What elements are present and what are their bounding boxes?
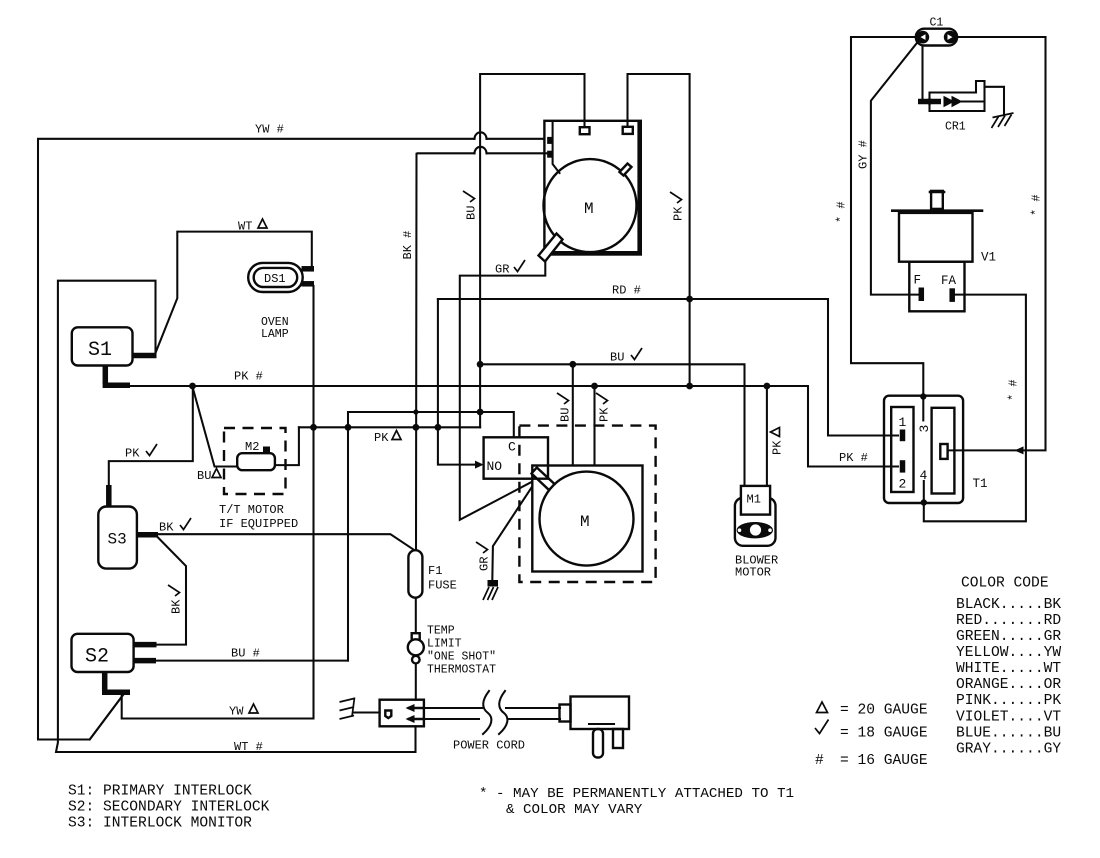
svg-text:LIMIT: LIMIT bbox=[427, 638, 462, 651]
svg-text:BK #: BK # bbox=[401, 231, 415, 260]
label GY # (rotated) bbox=[857, 140, 871, 169]
svg-text:RD #: RD # bbox=[612, 284, 641, 298]
label BU (check) rotated at oven motor drop bbox=[557, 393, 573, 422]
svg-text:GR: GR bbox=[478, 557, 492, 571]
cord break squiggles bbox=[483, 691, 491, 734]
svg-text:2: 2 bbox=[899, 477, 907, 492]
wire RD#: from riser corner right to T1 pin1 bbox=[438, 299, 898, 436]
svg-text:F1: F1 bbox=[428, 564, 442, 578]
junction wire2 at BK vertical bbox=[413, 424, 420, 431]
label BK (check) rotated, S3-S2 link bbox=[168, 585, 184, 614]
wire PK top: fan motor right terminal up and over, down to PK bus bbox=[628, 74, 690, 386]
svg-text:V1: V1 bbox=[981, 251, 996, 265]
svg-text:#: # bbox=[815, 753, 824, 769]
wire M2 output riser to wire2 bbox=[275, 427, 299, 465]
junction wire2 at RD riser bbox=[435, 424, 442, 431]
fan motor small shaft top-right bbox=[620, 164, 632, 176]
arrowhead into NO terminal bbox=[475, 461, 484, 469]
svg-text:PK: PK bbox=[771, 440, 785, 455]
wire BU triangle: diagonal from PK junction into M2 bbox=[193, 388, 238, 467]
label * # left (rotated) bbox=[835, 201, 849, 223]
svg-text:THERMOSTAT: THERMOSTAT bbox=[427, 664, 496, 677]
wire BK check: S3 right to fuse bbox=[157, 534, 415, 550]
svg-text:MOTOR: MOTOR bbox=[735, 566, 771, 580]
top-right border left side down to T1 pin3 bbox=[851, 37, 923, 420]
svg-text:POWER CORD: POWER CORD bbox=[453, 739, 525, 753]
wire RD riser down to NO terminal bbox=[438, 299, 479, 465]
svg-text:1: 1 bbox=[899, 415, 907, 430]
svg-text:YELLOW....YW: YELLOW....YW bbox=[956, 645, 1061, 661]
terminal block T1 bbox=[884, 393, 963, 505]
legend: gauge key bbox=[817, 702, 928, 719]
wire BU# from S2 to riser bbox=[156, 660, 348, 662]
fan motor circle bbox=[544, 159, 637, 252]
svg-text:BLACK.....BK: BLACK.....BK bbox=[956, 597, 1061, 613]
wire WT triangle: S1 loop up to oven lamp bbox=[156, 232, 312, 353]
wire S2 bottom to outer border diagonal bbox=[90, 695, 123, 740]
svg-text:F: F bbox=[914, 274, 922, 288]
junction BU wire at oven motor drop bbox=[569, 361, 576, 368]
svg-text:M: M bbox=[584, 200, 594, 218]
wire BK check: S3 down to S2 upper terminal bbox=[156, 537, 186, 645]
temp limit thermostat bbox=[408, 633, 424, 663]
svg-text:GRAY......GY: GRAY......GY bbox=[956, 742, 1061, 758]
svg-text:"ONE SHOT": "ONE SHOT" bbox=[427, 651, 496, 664]
wire riser DS1-bottom through wire2 down to YW triangle wire bbox=[122, 286, 314, 719]
svg-text:COLOR CODE: COLOR CODE bbox=[961, 576, 1049, 592]
magnetron V1 bbox=[892, 191, 982, 311]
svg-text:GY #: GY # bbox=[857, 140, 871, 169]
svg-text:WHITE.....WT: WHITE.....WT bbox=[956, 661, 1061, 677]
wire BK#: corner to fan motor box, down to fuse bbox=[487, 152, 548, 154]
svg-text:PK: PK bbox=[598, 407, 612, 422]
svg-text:PK #: PK # bbox=[839, 451, 868, 465]
svg-text:RED.......RD: RED.......RD bbox=[956, 613, 1061, 629]
svg-text:BK: BK bbox=[159, 521, 174, 535]
svg-text:BU: BU bbox=[465, 206, 479, 220]
wire hop: YW over BU vertical bbox=[475, 132, 487, 139]
wire YW# top: left border corner to fan motor box bbox=[487, 138, 545, 140]
wire GR check: oven motor case ground diagonal and fork stem bbox=[492, 486, 532, 581]
top-right border top edge segments around C1 bbox=[851, 36, 915, 38]
svg-text:WT: WT bbox=[238, 220, 252, 234]
wire2: M2 output net bbox=[299, 426, 480, 428]
wire hop: BK over BU vertical bbox=[475, 147, 487, 153]
motor M2 resistor body bbox=[237, 440, 275, 470]
svg-text:PK #: PK # bbox=[234, 370, 263, 384]
svg-text:* #: * # bbox=[1030, 194, 1044, 216]
svg-text:S2: SECONDARY INTERLOCK: S2: SECONDARY INTERLOCK bbox=[68, 800, 270, 816]
wire BU mid horizontal to blower M1 bbox=[480, 364, 744, 486]
switch S2 secondary interlock bbox=[72, 634, 157, 693]
wire PK check: S3 top riser to PK bus junction bbox=[109, 386, 193, 489]
arrowhead on T1 square wire bbox=[1015, 446, 1024, 454]
wire BU drop to oven motor bbox=[572, 364, 574, 466]
capacitor C1 bbox=[916, 29, 957, 46]
svg-text:T1: T1 bbox=[973, 477, 988, 491]
svg-text:* #: * # bbox=[835, 201, 849, 223]
fuse F1 bbox=[408, 550, 456, 598]
switch S3 interlock monitor bbox=[98, 485, 158, 569]
svg-text:M: M bbox=[580, 513, 590, 531]
svg-text:TEMP: TEMP bbox=[427, 625, 455, 638]
oven lamp DS1 bbox=[248, 263, 314, 292]
power cord ground fork bbox=[340, 698, 380, 720]
label PK (check) rotated at oven motor drop bbox=[596, 393, 612, 422]
junction wire1 at BU vertical bbox=[477, 409, 484, 416]
svg-text:PK: PK bbox=[672, 206, 686, 221]
wire FA to right loop down to T1 bbox=[955, 295, 1026, 451]
svg-text:BK: BK bbox=[170, 599, 184, 614]
svg-text:= 16 GAUGE: = 16 GAUGE bbox=[840, 753, 928, 769]
diode CR1 bbox=[918, 81, 1004, 114]
oven cavity dashed box bbox=[519, 426, 655, 582]
wire M1 right lead bbox=[766, 386, 768, 487]
svg-text:FUSE: FUSE bbox=[428, 579, 457, 593]
svg-text:FA: FA bbox=[941, 274, 957, 288]
T/T motor M2 dashed box bbox=[224, 428, 286, 494]
svg-text:M1: M1 bbox=[747, 493, 761, 507]
wire GY#: C1 to V1 F terminal bbox=[871, 42, 918, 295]
svg-text:S1: S1 bbox=[88, 339, 112, 362]
junction wire2 at DS1 riser bbox=[310, 424, 317, 431]
switch S1 primary interlock bbox=[72, 327, 157, 385]
junction on PK bus at blower M1 branch bbox=[764, 383, 771, 390]
svg-text:IF EQUIPPED: IF EQUIPPED bbox=[219, 517, 298, 531]
svg-text:YW: YW bbox=[229, 705, 244, 719]
svg-text:S1: PRIMARY INTERLOCK: S1: PRIMARY INTERLOCK bbox=[68, 784, 252, 800]
label PK (check) rotated bbox=[670, 192, 686, 221]
wire connector wire1-wire2 and riser down to BU# from S2 bbox=[347, 412, 349, 661]
label * # right (rotated) bbox=[1030, 194, 1044, 216]
wire PK bus from S1 across bbox=[129, 386, 898, 467]
junction on PK bus at fan motor riser bbox=[686, 383, 693, 390]
label * # near T1 (rotated) bbox=[1007, 379, 1021, 401]
label PK (triangle) rotated near M1 leads bbox=[771, 428, 785, 456]
wire1: lamp/switch net to C terminal of switch bbox=[348, 412, 514, 437]
blower motor M1 bbox=[735, 486, 776, 546]
fan motor box (top M) bbox=[539, 121, 641, 262]
svg-text:S3: S3 bbox=[108, 531, 127, 549]
interlock switch NO/C box bbox=[484, 437, 548, 478]
wire inner-left loop: S1 right terminal up, across, down left side to WT# bbox=[56, 281, 416, 752]
svg-text:PK: PK bbox=[374, 431, 389, 445]
svg-text:BU: BU bbox=[197, 469, 211, 483]
oven motor circle bbox=[540, 472, 634, 566]
label GR (check) rotated at case ground bbox=[476, 542, 492, 571]
svg-text:GR: GR bbox=[495, 263, 509, 277]
svg-text:M2: M2 bbox=[245, 440, 259, 454]
svg-text:BU #: BU # bbox=[231, 647, 260, 661]
svg-text:* #: * # bbox=[1007, 379, 1021, 401]
junction on PK bus at S3/M2 branch bbox=[189, 383, 196, 390]
svg-text:C1: C1 bbox=[930, 17, 944, 30]
svg-text:S2: S2 bbox=[85, 646, 109, 669]
junction wire2 at S2 riser bbox=[345, 424, 352, 431]
power cord lines with break bbox=[424, 707, 482, 709]
junction on RD wire at fan riser bbox=[686, 296, 693, 303]
svg-text:= 20 GAUGE: = 20 GAUGE bbox=[840, 703, 928, 719]
wire PK drop to oven motor bbox=[593, 386, 595, 466]
svg-text:NO: NO bbox=[487, 459, 503, 474]
svg-text:PINK......PK: PINK......PK bbox=[956, 693, 1061, 709]
svg-text:BLUE......BU: BLUE......BU bbox=[956, 726, 1061, 742]
wire C1 down to diode CR1 bbox=[921, 46, 923, 102]
label BK # (rotated) bbox=[401, 231, 415, 260]
wire T1 pin4 loop to FA junction bbox=[924, 450, 1026, 521]
svg-text:GREEN.....GR: GREEN.....GR bbox=[956, 629, 1061, 645]
ground fork at oven motor bbox=[483, 580, 498, 600]
svg-text:CR1: CR1 bbox=[945, 121, 966, 134]
fan motor shaft bottom-left bbox=[539, 234, 563, 262]
svg-text:& COLOR MAY VARY: & COLOR MAY VARY bbox=[506, 802, 643, 818]
power cord terminal box bbox=[380, 700, 424, 727]
junction on PK bus at oven motor drop bbox=[591, 383, 598, 390]
oven motor box bbox=[532, 466, 643, 572]
svg-text:WT #: WT # bbox=[234, 740, 263, 754]
junction BU wire left corner bbox=[477, 361, 484, 368]
svg-text:S3: INTERLOCK MONITOR: S3: INTERLOCK MONITOR bbox=[68, 816, 252, 832]
svg-text:DS1: DS1 bbox=[264, 272, 286, 286]
svg-text:PK: PK bbox=[125, 447, 140, 461]
label BU (check) rotated bbox=[463, 191, 479, 220]
junction wire1 at BK vertical bbox=[413, 409, 418, 414]
svg-text:= 18 GAUGE: = 18 GAUGE bbox=[840, 726, 928, 742]
svg-text:BU: BU bbox=[610, 351, 624, 365]
svg-text:BU: BU bbox=[559, 408, 573, 422]
svg-text:ORANGE....OR: ORANGE....OR bbox=[956, 677, 1061, 693]
wire GR: fan motor case to riser bbox=[460, 253, 546, 520]
svg-text:3: 3 bbox=[917, 425, 932, 433]
power plug bbox=[560, 697, 630, 758]
svg-text:T/T MOTOR: T/T MOTOR bbox=[219, 503, 284, 517]
oven motor shaft top-left bbox=[532, 468, 555, 491]
svg-text:VIOLET....VT: VIOLET....VT bbox=[956, 710, 1061, 726]
ground at CR1 bbox=[992, 113, 1014, 128]
wire BK fuse to thermostat to power cord box bbox=[415, 598, 417, 700]
fan motor terminals bbox=[580, 127, 590, 134]
wire BU top inverted-U from fan motor left terminal bbox=[480, 74, 584, 427]
svg-text:C: C bbox=[508, 440, 516, 455]
svg-text:YW #: YW # bbox=[255, 123, 284, 137]
top-right border right side down to T1 square wire bbox=[948, 37, 1046, 450]
svg-text:LAMP: LAMP bbox=[261, 328, 289, 341]
svg-text:* - MAY BE PERMANENTLY ATTACHE: * - MAY BE PERMANENTLY ATTACHED TO T1 bbox=[479, 786, 794, 802]
